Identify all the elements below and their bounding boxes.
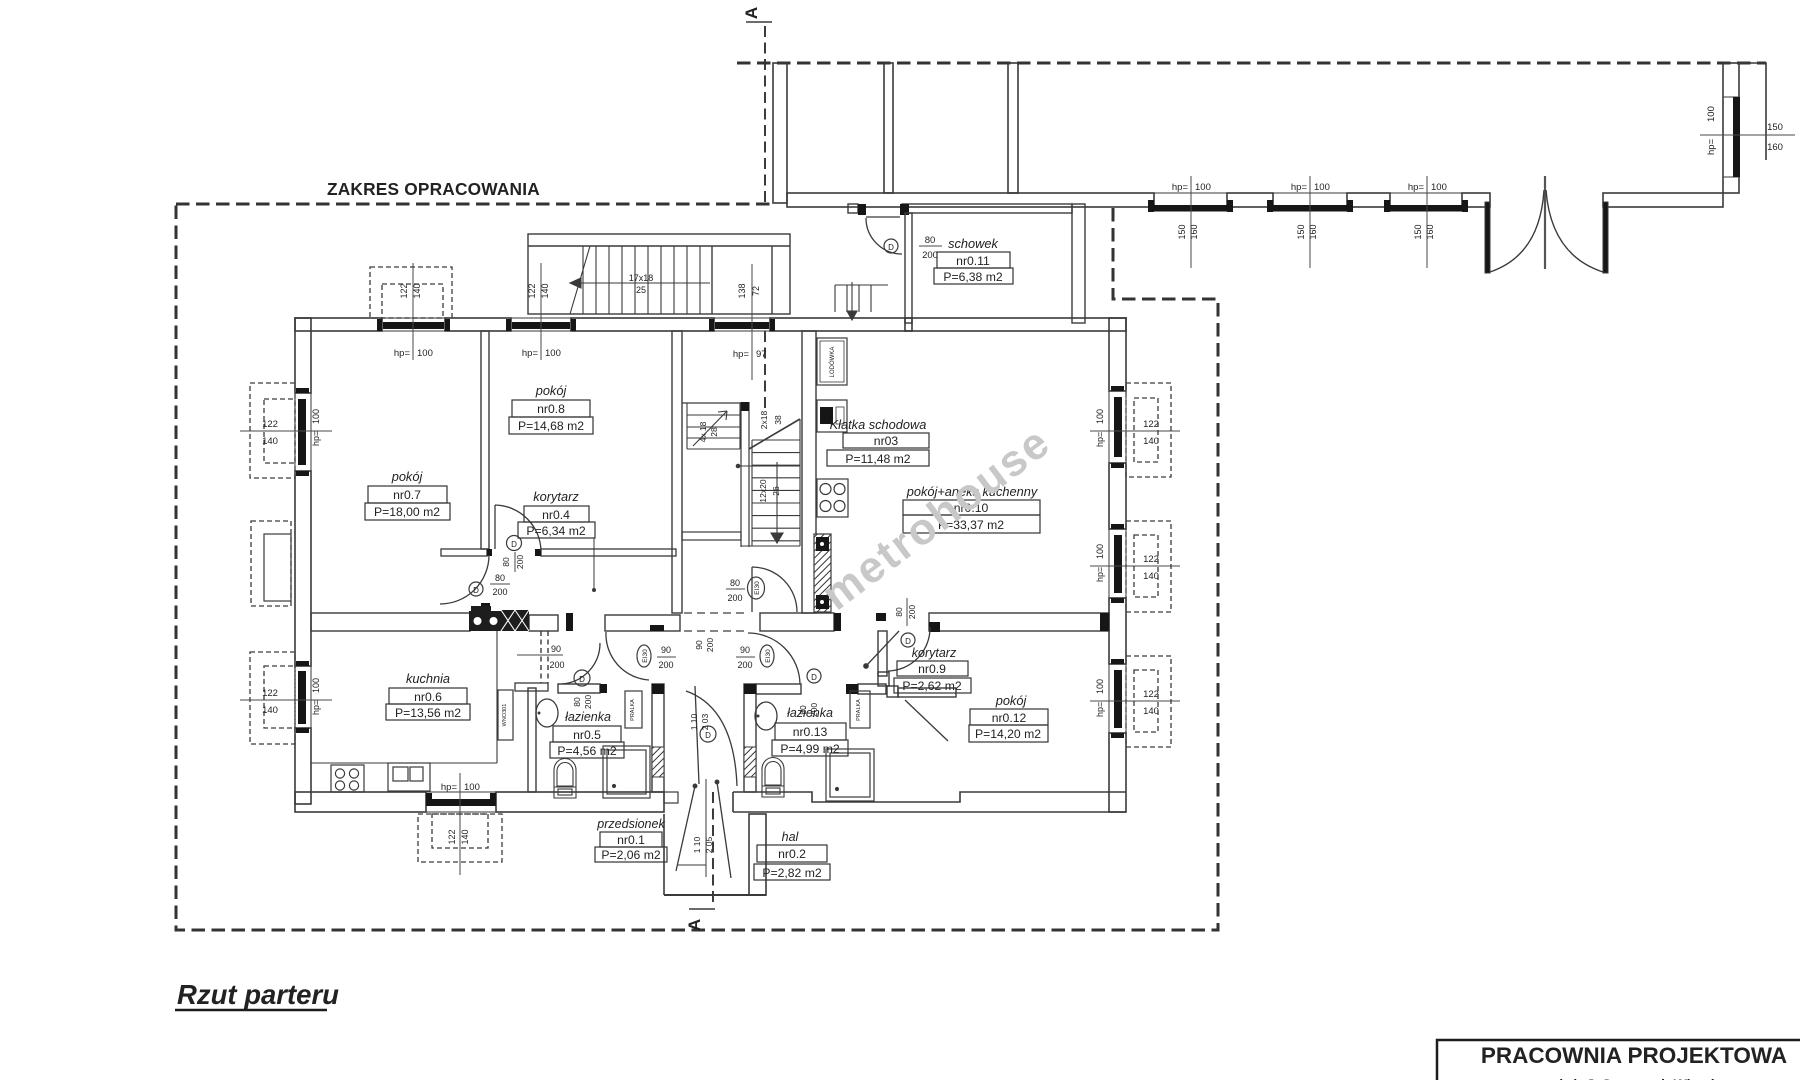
lazienka0.13 wc — [762, 758, 784, 798]
svg-text:P=6,34 m2: P=6,34 m2 — [526, 524, 586, 538]
entrance bump-out przedsionek/hal — [664, 814, 766, 895]
wing east window — [1700, 97, 1795, 177]
svg-text:hp=: hp= — [441, 782, 458, 793]
svg-text:hp=: hp= — [1095, 432, 1105, 447]
top wing dashed north wall — [737, 62, 1766, 65]
room label lazienka 0.13 — [772, 706, 848, 756]
svg-text:przedsionek: przedsionek — [596, 817, 665, 831]
svg-text:150: 150 — [1767, 122, 1783, 133]
west blind recess dashed — [251, 521, 291, 606]
wall pokoj0.7 door stub — [481, 603, 490, 613]
klatka upper landing line — [682, 402, 741, 404]
svg-text:pokój: pokój — [535, 383, 568, 398]
top wing east wall — [1723, 63, 1739, 193]
svg-text:P=4,99 m2: P=4,99 m2 — [780, 742, 840, 756]
north window W1 — [370, 263, 452, 360]
svg-text:140: 140 — [1143, 571, 1159, 582]
svg-text:pokój: pokój — [995, 693, 1028, 708]
main north wall — [295, 318, 1126, 331]
svg-text:200: 200 — [727, 593, 742, 603]
door pokoj0.7 dim — [469, 573, 510, 597]
room label hal 0.2 — [754, 830, 830, 880]
svg-text:2 03: 2 03 — [700, 713, 710, 730]
svg-text:P=2,62 m2: P=2,62 m2 — [902, 679, 962, 693]
svg-text:100: 100 — [1195, 182, 1211, 193]
svg-text:D: D — [705, 731, 711, 740]
lazienka0.13 walls — [744, 631, 887, 792]
wing window 2 — [1267, 176, 1353, 268]
svg-text:hp=: hp= — [394, 348, 411, 359]
svg-text:hp=: hp= — [1095, 567, 1105, 582]
kuchnia east wall dashed door — [541, 631, 548, 683]
stove nr0.10 — [817, 479, 848, 517]
svg-text:nr0.7: nr0.7 — [393, 488, 421, 502]
svg-text:PRACOWNIA PROJEKTOWA: PRACOWNIA PROJEKTOWA — [1481, 1043, 1787, 1068]
top wing south wall west part — [787, 193, 1154, 207]
svg-text:122: 122 — [399, 283, 409, 298]
svg-text:P=4,56 m2: P=4,56 m2 — [557, 744, 617, 758]
main west wall — [295, 318, 311, 804]
svg-text:schowek: schowek — [948, 236, 998, 251]
top wing south wall pier 2 — [1347, 193, 1390, 207]
schowek door dim 80/200 — [884, 235, 942, 261]
lazienka0.13 shower — [826, 749, 874, 801]
schowek east wall — [1072, 204, 1085, 323]
svg-text:140: 140 — [1143, 436, 1159, 447]
svg-text:P=2,82 m2: P=2,82 m2 — [762, 866, 822, 880]
schowek west wall — [905, 213, 912, 323]
svg-text:EI30: EI30 — [765, 649, 772, 663]
west pilaster — [264, 534, 291, 601]
svg-text:1 10: 1 10 — [692, 836, 702, 853]
kuchnia stove — [331, 765, 364, 792]
fridge lodowka nr0.10 — [817, 338, 847, 385]
svg-text:140: 140 — [460, 829, 470, 844]
svg-text:122: 122 — [527, 283, 537, 298]
lazienka0.5 pralka — [625, 691, 642, 728]
svg-text:hp=: hp= — [311, 431, 321, 446]
south window K1 — [418, 773, 502, 875]
svg-text:2x18: 2x18 — [759, 411, 769, 430]
svg-text:hp=: hp= — [1172, 182, 1189, 193]
pokoj0.12 door leaf — [905, 700, 948, 741]
door korytarz0.4 to pokoj0.7 — [440, 555, 489, 604]
svg-text:100: 100 — [545, 348, 561, 359]
klatka west wall — [741, 402, 749, 547]
svg-text:97: 97 — [756, 349, 767, 360]
svg-text:17x18: 17x18 — [629, 273, 654, 283]
corridor center rotated dim — [694, 638, 715, 652]
svg-text:hp=: hp= — [1095, 702, 1105, 717]
lazienka0.13 duct hatch — [744, 747, 756, 777]
svg-text:nr0.1: nr0.1 — [617, 833, 645, 847]
svg-text:200: 200 — [492, 587, 507, 597]
east window V2 — [1090, 521, 1180, 612]
room label klatka schodowa nr03 — [827, 417, 929, 466]
svg-text:80: 80 — [501, 557, 511, 567]
room label pokoj+aneks 0.10 — [903, 484, 1040, 533]
svg-text:P=14,68 m2: P=14,68 m2 — [518, 419, 584, 433]
svg-text:D: D — [473, 586, 479, 595]
west window L1 — [240, 383, 332, 478]
svg-text:nr0.9: nr0.9 — [918, 662, 946, 676]
svg-text:A: A — [685, 919, 704, 931]
svg-text:80: 80 — [730, 578, 740, 588]
corridor north wall segments — [311, 613, 1109, 631]
svg-text:200: 200 — [658, 660, 673, 670]
svg-text:100: 100 — [1095, 409, 1105, 424]
svg-text:200: 200 — [907, 605, 917, 619]
svg-text:ZAKRES OPRACOWANIA: ZAKRES OPRACOWANIA — [327, 179, 540, 199]
svg-text:D: D — [511, 540, 517, 549]
drawing title rzut parteru — [175, 979, 339, 1010]
room label korytarz 0.9 — [894, 646, 971, 693]
lazienka0.5 D circle — [574, 670, 590, 686]
svg-text:160: 160 — [1425, 224, 1435, 239]
svg-text:38: 38 — [773, 415, 783, 425]
svg-text:korytarz: korytarz — [912, 646, 957, 660]
hatched shaft boxes on corridor wall — [469, 606, 529, 631]
top wing partition 1 — [884, 63, 893, 193]
svg-text:200: 200 — [583, 695, 593, 709]
lazienka0.13 door dim rotated — [798, 703, 819, 717]
svg-text:hp=: hp= — [733, 349, 750, 360]
svg-text:nr0.2: nr0.2 — [778, 847, 806, 861]
lazienka0.13 pralka — [850, 691, 870, 728]
top wing east outer jog — [1739, 63, 1766, 160]
room label przedsionek 0.1 — [595, 817, 667, 862]
room label pokoj 0.12 — [969, 693, 1048, 742]
klatka door to hall — [752, 567, 797, 612]
svg-text:nr0.11: nr0.11 — [956, 254, 990, 268]
svg-text:80: 80 — [572, 697, 582, 707]
korytarz0.9 door arc — [864, 627, 930, 671]
lazienka0.13 door arc — [748, 633, 800, 684]
schowek door arc — [866, 217, 902, 254]
svg-text:hp=: hp= — [1408, 182, 1425, 193]
central wall pokoj0.8 / klatka — [672, 331, 682, 613]
svg-text:160: 160 — [1189, 224, 1199, 239]
zakres boundary dashed — [176, 204, 1218, 930]
top wing south wall pier 3 — [1462, 193, 1490, 207]
svg-text:EI30: EI30 — [754, 581, 761, 595]
svg-text:80: 80 — [495, 573, 505, 583]
wall korytarz0.9 / pokoj0.12 — [878, 672, 956, 697]
section line A bottom — [685, 792, 715, 931]
svg-text:P=11,48 m2: P=11,48 m2 — [845, 452, 910, 466]
svg-text:100: 100 — [1314, 182, 1330, 193]
top wing partition 2 — [1008, 63, 1018, 193]
korytarz0.9 door dim — [894, 598, 917, 647]
main south wall west part — [295, 792, 1126, 812]
svg-text:26: 26 — [771, 486, 781, 496]
passage D circle — [700, 726, 716, 742]
svg-text:D: D — [811, 673, 817, 682]
svg-text:P=18,00 m2: P=18,00 m2 — [374, 505, 440, 519]
svg-text:90: 90 — [551, 644, 561, 654]
klatka stair label — [758, 411, 783, 503]
svg-text:pokój: pokój — [391, 469, 424, 484]
svg-text:hp=: hp= — [522, 348, 539, 359]
wing double entry door — [1485, 176, 1608, 273]
svg-text:łazienka: łazienka — [565, 710, 611, 724]
kuchnia counter — [311, 631, 497, 763]
klatka newel black — [741, 402, 749, 411]
svg-text:Klatka schodowa: Klatka schodowa — [830, 417, 927, 432]
svg-text:nr0.6: nr0.6 — [414, 690, 442, 704]
svg-text:100: 100 — [311, 678, 321, 693]
svg-text:122: 122 — [1143, 419, 1159, 430]
svg-text:160: 160 — [1767, 142, 1783, 153]
wing window 3 — [1384, 176, 1468, 268]
klatka lobby line — [682, 532, 741, 540]
lazienka0.5 duct hatch — [652, 747, 664, 777]
svg-text:150: 150 — [1177, 224, 1187, 239]
corridor jamb fills — [566, 613, 1109, 632]
svg-text:D: D — [888, 243, 894, 252]
lazienka0.5 walls — [558, 684, 664, 792]
lazienka0.5 door dim rotated — [572, 695, 593, 709]
svg-text:PRALKA: PRALKA — [630, 699, 636, 721]
lazienka0.5 wc — [554, 759, 576, 799]
svg-text:72: 72 — [751, 286, 761, 296]
kuchnia tall cupboard — [498, 690, 513, 740]
svg-text:2 05: 2 05 — [704, 836, 714, 853]
svg-text:D: D — [579, 675, 585, 684]
schowek north wall w door — [848, 204, 1072, 215]
hatched duct column — [814, 534, 831, 612]
svg-text:P=13,56 m2: P=13,56 m2 — [395, 706, 461, 720]
svg-text:25: 25 — [636, 285, 646, 295]
svg-text:P=6,38 m2: P=6,38 m2 — [943, 270, 1003, 284]
mini stair 4x18 — [687, 403, 740, 449]
svg-text:138: 138 — [737, 283, 747, 298]
west window L2 — [240, 652, 332, 744]
svg-text:nr0.12: nr0.12 — [992, 711, 1027, 725]
svg-text:nr0.5: nr0.5 — [573, 728, 601, 742]
room label kuchnia 0.6 — [386, 671, 470, 720]
kuchnia door arc — [562, 632, 649, 684]
svg-text:80: 80 — [925, 235, 936, 246]
svg-text:200: 200 — [515, 555, 525, 569]
section line A top — [742, 7, 772, 408]
north window W3 — [709, 264, 775, 380]
svg-text:hp=: hp= — [1706, 138, 1717, 155]
passage rotated dim 110/203 — [689, 713, 710, 730]
kuchnia/bath jog — [515, 683, 548, 691]
svg-text:200: 200 — [922, 250, 938, 261]
door pokoj0.8 dim — [501, 536, 525, 573]
wing window 1 — [1148, 176, 1233, 268]
svg-text:łazienka: łazienka — [787, 706, 833, 720]
svg-text:90: 90 — [661, 645, 671, 655]
mini stair label — [698, 421, 719, 442]
kuchnia sink — [388, 763, 430, 791]
svg-text:28: 28 — [709, 427, 719, 437]
klatka east wall — [802, 331, 816, 613]
corridor dashed opening — [684, 613, 746, 631]
svg-text:kuchnia: kuchnia — [406, 671, 450, 686]
klatka door dim 80/200 + EI30 — [726, 577, 765, 603]
svg-text:150: 150 — [1413, 224, 1423, 239]
svg-text:D: D — [905, 637, 911, 646]
svg-text:100: 100 — [1431, 182, 1447, 193]
svg-text:hp=: hp= — [1291, 182, 1308, 193]
room label pokoj 0.8 — [509, 383, 593, 434]
svg-text:PRALKA: PRALKA — [856, 699, 862, 721]
svg-text:100: 100 — [1095, 679, 1105, 694]
schowek room label — [934, 236, 1013, 284]
room label lazienka 0.5 — [550, 710, 624, 758]
svg-text:korytarz: korytarz — [533, 489, 579, 504]
exterior stair treads — [570, 246, 710, 314]
door korytarz0.4 to pokoj0.8 — [495, 505, 541, 551]
svg-text:200: 200 — [549, 660, 564, 670]
lazienka0.5 shower — [603, 746, 650, 798]
svg-text:100: 100 — [417, 348, 433, 359]
lazienka0.13 D circle — [807, 669, 821, 683]
wall pokoj0.7 / pokoj0.8 — [481, 331, 489, 549]
kuchnia/bath divider — [528, 688, 536, 792]
svg-text:WNO301: WNO301 — [502, 704, 508, 727]
svg-text:Rzut parteru: Rzut parteru — [177, 979, 339, 1010]
main east wall — [1109, 318, 1126, 812]
top wing south wall pier 1 — [1227, 193, 1273, 207]
svg-text:12x20: 12x20 — [758, 479, 768, 502]
east window V3 — [1090, 656, 1180, 747]
svg-text:1 10: 1 10 — [689, 713, 699, 730]
exterior stair platform — [528, 234, 790, 314]
svg-text:hal: hal — [782, 830, 800, 844]
east window V1 — [1090, 383, 1180, 477]
klatka treads — [741, 419, 800, 546]
svg-text:hp=: hp= — [311, 700, 321, 715]
svg-text:200: 200 — [705, 638, 715, 652]
svg-text:90: 90 — [694, 640, 704, 650]
svg-text:LODÓWKA: LODÓWKA — [829, 347, 836, 378]
klatka break diagonal — [749, 419, 800, 449]
room label pokoj 0.7 — [365, 469, 450, 520]
svg-text:nr0.13: nr0.13 — [793, 725, 828, 739]
svg-text:90: 90 — [740, 645, 750, 655]
sink block nr0.10 — [817, 400, 847, 432]
entrance door leaves — [676, 779, 731, 878]
central passage door arc — [686, 686, 737, 786]
svg-text:122: 122 — [447, 829, 457, 844]
svg-text:nr0.4: nr0.4 — [542, 508, 570, 522]
svg-text:100: 100 — [311, 409, 321, 424]
corridor EI30 ovals left — [637, 645, 676, 670]
lazienka0.5 sink — [536, 699, 558, 727]
svg-text:200: 200 — [737, 660, 752, 670]
svg-text:100: 100 — [1095, 544, 1105, 559]
svg-text:140: 140 — [540, 283, 550, 298]
klatka walk dot — [736, 464, 741, 469]
korytarz0.4 leader line — [593, 538, 595, 590]
svg-text:EI30: EI30 — [642, 649, 649, 663]
svg-text:122: 122 — [1143, 689, 1159, 700]
room label korytarz 0.4 — [518, 489, 595, 538]
wall pokoj0.8 / korytarz0.4 — [441, 549, 676, 556]
svg-text:140: 140 — [1143, 706, 1159, 717]
lazienka0.13 sink — [755, 702, 777, 730]
svg-text:160: 160 — [1308, 224, 1318, 239]
north window W2 — [506, 263, 576, 360]
svg-text:150: 150 — [1296, 224, 1306, 239]
svg-text:P=2,06 m2: P=2,06 m2 — [601, 848, 661, 862]
schowek entry steps — [835, 282, 888, 320]
svg-text:P=14,20 m2: P=14,20 m2 — [975, 727, 1041, 741]
svg-text:140: 140 — [412, 283, 422, 298]
svg-text:A: A — [742, 7, 761, 19]
svg-text:100: 100 — [464, 782, 480, 793]
corridor dim kuchnia door — [517, 644, 565, 670]
title block pracownia projektowa — [1437, 1040, 1800, 1080]
top wing west wall — [773, 63, 787, 203]
svg-text:100: 100 — [1706, 106, 1717, 122]
svg-text:4x 18: 4x 18 — [698, 421, 708, 442]
top wing south wall east part — [1603, 193, 1723, 207]
entrance rotated dim 110/205 — [692, 836, 714, 853]
svg-text:nr03: nr03 — [874, 434, 899, 448]
svg-text:mgr inż. J. Szymczak-Wierzba: mgr inż. J. Szymczak-Wierzba — [1529, 1076, 1727, 1080]
corridor EI30 ovals right — [736, 645, 774, 670]
svg-text:122: 122 — [1143, 554, 1159, 565]
svg-text:nr0.8: nr0.8 — [537, 402, 565, 416]
svg-text:80: 80 — [894, 607, 904, 617]
